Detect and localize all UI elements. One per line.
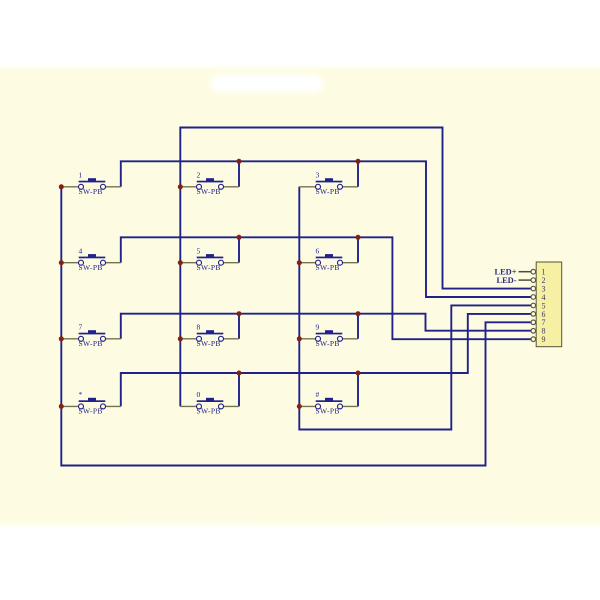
connector pin 2 terminal circle: [531, 278, 536, 283]
connector pin 2 lead: [533, 279, 536, 281]
push button SW-PB "8": [180, 323, 239, 349]
svg-text:SW-PB: SW-PB: [79, 407, 103, 416]
junction link2 right: [356, 235, 361, 240]
svg-text:6: 6: [316, 246, 320, 255]
wire column1 to pin7: [61, 187, 531, 466]
wire row2 link to pin9: [121, 237, 531, 339]
connector pin 6 terminal circle: [531, 312, 536, 317]
wire row3 stub SW9: [357, 314, 359, 339]
svg-text:1: 1: [79, 171, 83, 180]
svg-text:SW-PB: SW-PB: [79, 339, 103, 348]
push button SW-PB "7": [61, 323, 121, 349]
svg-text:SW-PB: SW-PB: [197, 407, 221, 416]
svg-text:3: 3: [316, 171, 320, 180]
push button SW-PB "6": [299, 246, 358, 272]
wire row4 stub SW#: [357, 373, 359, 406]
wire row1 stub SW2: [238, 161, 240, 187]
connector pin 4 terminal circle: [531, 295, 536, 300]
LED+ net wire: [519, 271, 532, 273]
connector pin 4 lead: [533, 296, 536, 298]
connector pin 6 lead: [533, 313, 536, 315]
connector pin 3 terminal circle: [531, 286, 536, 291]
LED- net wire: [519, 279, 532, 281]
junction link3 right: [356, 311, 361, 316]
push button SW-PB "#": [299, 390, 358, 416]
svg-text:9: 9: [316, 323, 320, 332]
svg-text:LED-: LED-: [496, 276, 516, 285]
junction col3 row2: [297, 260, 302, 265]
wire column3 to pin5: [299, 187, 531, 430]
push button SW-PB "*": [61, 390, 121, 416]
push button SW-PB "0": [180, 390, 239, 416]
push button SW-PB "5": [180, 246, 239, 272]
connector pin 7 lead: [533, 321, 536, 323]
junction col2 row2: [178, 260, 183, 265]
connector pin 7 terminal circle: [531, 320, 536, 325]
push button SW-PB "9": [299, 323, 358, 349]
wire row3 link to pin8: [121, 314, 531, 339]
svg-text:*: *: [79, 390, 83, 399]
junction link4 right: [356, 371, 361, 376]
junction link3 mid: [237, 311, 242, 316]
connector pin 8 terminal circle: [531, 329, 536, 334]
junction link4 mid: [237, 371, 242, 376]
push button SW-PB "3": [299, 171, 358, 197]
wire row4 stub SW0: [238, 373, 240, 406]
wire row2 stub SW5: [238, 237, 240, 262]
junction col1 row4: [59, 404, 64, 409]
wire row1 link to pin4: [121, 161, 531, 297]
connector pin 5 terminal circle: [531, 303, 536, 308]
svg-text:0: 0: [197, 390, 201, 399]
wire row3 stub SW8: [238, 314, 240, 339]
svg-text:8: 8: [197, 323, 201, 332]
svg-text:SW-PB: SW-PB: [79, 187, 103, 196]
svg-text:SW-PB: SW-PB: [197, 263, 221, 272]
svg-text:SW-PB: SW-PB: [316, 339, 340, 348]
svg-text:SW-PB: SW-PB: [79, 263, 103, 272]
push button SW-PB "2": [180, 171, 239, 197]
connector pin 9 lead: [533, 338, 536, 340]
junction col2 row1: [178, 184, 183, 189]
white smudge watermark area: [211, 75, 323, 93]
svg-text:SW-PB: SW-PB: [316, 187, 340, 196]
svg-text:4: 4: [79, 246, 83, 255]
junction link1 right: [356, 159, 361, 164]
svg-text:#: #: [316, 390, 320, 399]
junction col3 row3: [297, 336, 302, 341]
wire row2 stub SW6: [357, 237, 359, 262]
svg-text:SW-PB: SW-PB: [197, 339, 221, 348]
junction col1 row2: [59, 260, 64, 265]
wire row4 link to pin6: [121, 314, 531, 407]
push button SW-PB "4": [61, 246, 121, 272]
connector pin 8 lead: [533, 330, 536, 332]
junction link1 mid: [237, 159, 242, 164]
wire row1 stub SW3: [357, 161, 359, 187]
connector pin 1 terminal circle: [531, 269, 536, 274]
junction col3 row4: [297, 404, 302, 409]
junction link2 mid: [237, 235, 242, 240]
connector pin 9 terminal circle: [531, 337, 536, 342]
connector pin 1 lead: [533, 271, 536, 273]
svg-text:SW-PB: SW-PB: [316, 263, 340, 272]
svg-text:7: 7: [79, 323, 83, 332]
svg-text:SW-PB: SW-PB: [316, 407, 340, 416]
junction col1 row3: [59, 336, 64, 341]
push button SW-PB "1": [61, 171, 121, 197]
svg-text:2: 2: [197, 171, 201, 180]
junction col2 row3: [178, 336, 183, 341]
svg-text:9: 9: [542, 335, 546, 344]
wire column2 to pin3: [180, 128, 531, 407]
connector J1 body: [536, 262, 562, 347]
connector pin 5 lead: [533, 305, 536, 307]
svg-text:5: 5: [197, 246, 201, 255]
connector pin 3 lead: [533, 288, 536, 290]
junction col1 row1: [59, 184, 64, 189]
svg-text:SW-PB: SW-PB: [197, 187, 221, 196]
